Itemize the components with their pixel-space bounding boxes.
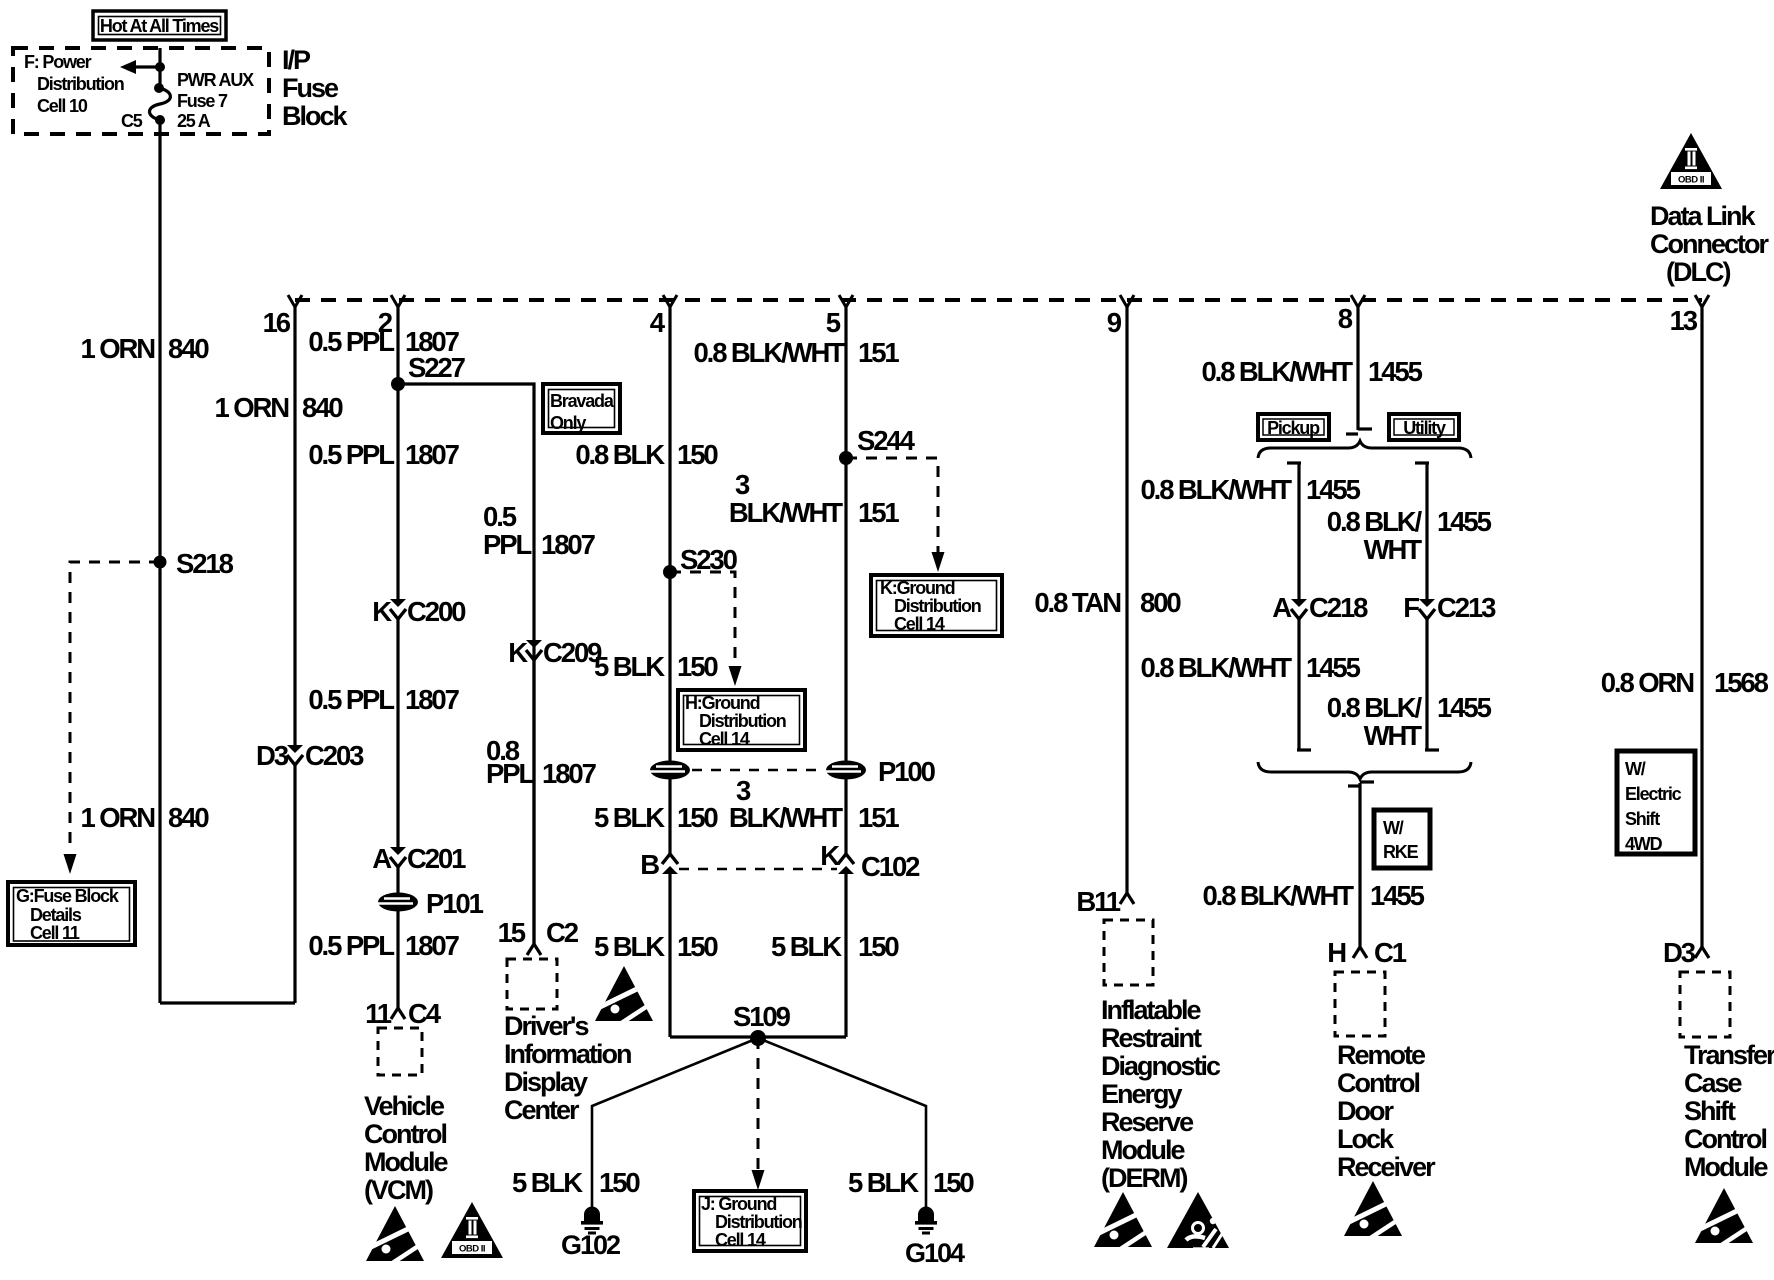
svg-text:Cell 14: Cell 14: [715, 1230, 766, 1250]
label 5 BLK 150: [594, 931, 718, 962]
svg-text:Shift: Shift: [1625, 809, 1660, 829]
svg-text:150: 150: [677, 439, 718, 470]
dashed branch S230 to H:Ground box: [670, 572, 735, 666]
svg-text:0.5 PPL: 0.5 PPL: [308, 684, 394, 715]
pickup sub-wire: [1297, 463, 1300, 601]
svg-text:5 BLK: 5 BLK: [594, 931, 665, 962]
ESD triangle (TCSCM): [1695, 1188, 1753, 1246]
wire 4 upper: [668, 306, 671, 855]
svg-text:Data Link: Data Link: [1650, 201, 1757, 231]
svg-text:1455: 1455: [1368, 356, 1423, 387]
label 3 BLK/WHT 151 upper: [729, 469, 899, 528]
Driver's Information Display Center label: [504, 1011, 631, 1125]
svg-text:Block: Block: [282, 101, 349, 131]
svg-text:RKE: RKE: [1383, 842, 1419, 862]
svg-text:(DERM): (DERM): [1101, 1163, 1187, 1193]
DERM label: [1101, 995, 1221, 1193]
svg-text:PPL: PPL: [486, 758, 534, 789]
svg-text:Cell 14: Cell 14: [894, 614, 945, 634]
Vehicle Control Module (VCM) label: [364, 1091, 448, 1205]
svg-text:S227: S227: [408, 352, 466, 383]
connector C209 pin K: [526, 640, 542, 660]
label 0.8 BLK/WHT 1455 (utility lower, stacked): [1327, 692, 1492, 751]
svg-text:Display: Display: [504, 1067, 588, 1097]
svg-text:A: A: [1272, 592, 1292, 623]
svg-text:S244: S244: [857, 425, 916, 456]
svg-text:1807: 1807: [541, 529, 596, 560]
svg-text:0.5 PPL: 0.5 PPL: [308, 930, 394, 961]
bus joint pin 4: [650, 295, 677, 338]
svg-text:Connector: Connector: [1650, 229, 1769, 259]
svg-text:Pickup: Pickup: [1267, 418, 1320, 438]
label 1 ORN 840: [214, 392, 343, 423]
dashed wire S109 to J:Ground box: [757, 1038, 760, 1174]
svg-text:S218: S218: [176, 548, 234, 579]
label 0.8 BLK/WHT 1455 (pickup lower): [1140, 652, 1360, 683]
wire bottom: across to column 16: [160, 1001, 295, 1004]
connector pin D3: [1695, 947, 1709, 958]
svg-text:K:Ground: K:Ground: [880, 578, 955, 598]
label 0.8 BLK/WHT 1455 (utility, stacked): [1327, 506, 1492, 565]
svg-text:5 BLK: 5 BLK: [771, 931, 842, 962]
bus joint pin 5: [826, 295, 853, 338]
svg-text:5 BLK: 5 BLK: [594, 802, 665, 833]
svg-text:0.8 BLK/WHT: 0.8 BLK/WHT: [1140, 652, 1292, 683]
arrow to F: Power Distribution: [128, 65, 160, 68]
svg-text:5 BLK: 5 BLK: [512, 1167, 583, 1198]
wire branch S227 to Bravada column: [398, 384, 534, 944]
connector C2 pin 15: [527, 944, 541, 955]
svg-text:BLK/WHT: BLK/WHT: [729, 802, 843, 833]
svg-text:150: 150: [677, 931, 718, 962]
wire 9: [1125, 306, 1128, 893]
wire 4 lower: [668, 873, 671, 1037]
svg-text:Module: Module: [364, 1147, 448, 1177]
bus joint pin 13: [1670, 295, 1709, 336]
svg-text:15: 15: [498, 917, 526, 948]
Pickup box: [1258, 414, 1329, 440]
svg-text:Distribution: Distribution: [699, 711, 786, 731]
svg-text:PPL: PPL: [483, 529, 531, 560]
J: Ground Distribution Cell 14 box: [694, 1191, 806, 1251]
svg-text:D3: D3: [1663, 937, 1696, 968]
svg-text:Control: Control: [1337, 1068, 1419, 1098]
svg-text:Details: Details: [30, 905, 82, 925]
svg-text:Distribution: Distribution: [715, 1212, 802, 1232]
svg-text:1 ORN: 1 ORN: [214, 392, 288, 423]
svg-text:WHT: WHT: [1364, 534, 1423, 565]
svg-text:F: F: [1403, 592, 1419, 623]
bus joint pin 9: [1107, 295, 1134, 338]
svg-text:BLK/WHT: BLK/WHT: [729, 497, 843, 528]
svg-text:Information: Information: [504, 1039, 631, 1069]
connector pin B11: [1120, 893, 1134, 904]
wire into fuse: [158, 48, 161, 88]
svg-text:Control: Control: [1684, 1124, 1766, 1154]
svg-text:Reserve: Reserve: [1101, 1107, 1194, 1137]
svg-text:151: 151: [858, 497, 899, 528]
bus joint pin 2: [378, 295, 405, 338]
label 0.8 BLK/WHT 151: [693, 337, 899, 368]
svg-text:P100: P100: [878, 756, 936, 787]
K: Ground Distribution Cell 14 box: [871, 575, 1002, 636]
svg-text:150: 150: [677, 651, 718, 682]
svg-text:I/P: I/P: [282, 45, 311, 75]
wire 13: [1700, 306, 1703, 947]
connector C4 pin 11: [391, 1008, 405, 1019]
svg-text:C1: C1: [1374, 937, 1407, 968]
svg-text:0.8 ORN: 0.8 ORN: [1601, 667, 1694, 698]
Hot At All Times label box: [93, 11, 226, 40]
grommet P100 right: [826, 761, 866, 780]
svg-text:840: 840: [302, 392, 343, 423]
svg-text:9: 9: [1107, 307, 1122, 338]
svg-text:1455: 1455: [1306, 652, 1361, 683]
wire S109 to G102: [592, 1038, 758, 1207]
svg-text:150: 150: [599, 1167, 640, 1198]
svg-text:5 BLK: 5 BLK: [594, 651, 665, 682]
F: Power Distribution Cell 10 text: [24, 52, 124, 116]
wire 2 middle: [396, 618, 399, 849]
top brace: [1258, 441, 1471, 458]
svg-text:K: K: [372, 596, 392, 627]
svg-text:800: 800: [1140, 587, 1181, 618]
svg-text:5 BLK: 5 BLK: [848, 1167, 919, 1198]
svg-text:840: 840: [168, 802, 209, 833]
connector C102 pin K: [838, 854, 854, 874]
svg-text:0.8 BLK: 0.8 BLK: [575, 439, 665, 470]
svg-text:Distribution: Distribution: [894, 596, 981, 616]
svg-text:0.5 PPL: 0.5 PPL: [308, 326, 394, 357]
label 0.5 PPL 1807 (stacked): [483, 501, 596, 560]
svg-text:K: K: [820, 840, 840, 871]
connector C213 pin F: [1419, 599, 1435, 619]
svg-text:(VCM): (VCM): [364, 1175, 433, 1205]
RCDLR label: [1337, 1040, 1436, 1182]
svg-text:Transfer: Transfer: [1684, 1040, 1774, 1070]
svg-text:H:Ground: H:Ground: [685, 693, 760, 713]
wire 8: [1356, 306, 1359, 430]
svg-text:151: 151: [858, 802, 899, 833]
OBD II triangle (DLC): [1660, 133, 1722, 189]
ground G104: [915, 1207, 937, 1235]
svg-text:11: 11: [365, 998, 392, 1029]
RCDLR dashed box: [1335, 972, 1385, 1036]
OBD II triangle (VCM): [441, 1202, 503, 1258]
svg-text:0.5: 0.5: [483, 501, 517, 532]
node S218: [154, 556, 167, 569]
DERM dashed box: [1104, 920, 1153, 985]
svg-text:G:Fuse Block: G:Fuse Block: [16, 886, 120, 906]
label 0.8 ORN 1568: [1601, 667, 1769, 698]
svg-text:5: 5: [826, 307, 841, 338]
Data Link Connector (DLC) label: [1650, 201, 1769, 287]
svg-text:1807: 1807: [405, 439, 460, 470]
svg-text:G102: G102: [561, 1230, 620, 1260]
wire to C1: [1358, 783, 1361, 947]
svg-text:C4: C4: [408, 998, 442, 1029]
svg-text:Door: Door: [1337, 1096, 1394, 1126]
svg-text:Shift: Shift: [1684, 1096, 1736, 1126]
svg-text:4WD: 4WD: [1625, 834, 1663, 854]
bottom brace: [1258, 762, 1471, 779]
svg-text:B: B: [640, 849, 659, 880]
svg-text:Electric: Electric: [1625, 784, 1682, 804]
connector C200 pin K: [390, 599, 406, 619]
svg-text:H: H: [1327, 937, 1345, 968]
label 0.5 PPL 1807 third: [308, 684, 459, 715]
connector C201 pin A: [390, 847, 406, 867]
G: Fuse Block Details Cell 11 box: [8, 882, 135, 945]
svg-text:C218: C218: [1309, 592, 1368, 623]
svg-text:Center: Center: [504, 1095, 580, 1125]
svg-text:16: 16: [263, 307, 291, 338]
label 5 BLK 150: [594, 802, 718, 833]
VCM dashed box: [378, 1028, 422, 1075]
utility sub-wire: [1425, 463, 1428, 601]
svg-text:Driver's: Driver's: [504, 1011, 588, 1041]
svg-text:Control: Control: [364, 1119, 446, 1149]
label 5 BLK 150: [594, 651, 718, 682]
svg-text:Cell 10: Cell 10: [37, 96, 88, 116]
label 1 ORN 840 lower: [80, 802, 209, 833]
dashed branch S244 to K:Ground box: [846, 458, 938, 556]
wire 2 upper: [396, 306, 399, 601]
PWR AUX Fuse 7 25A text: [177, 70, 254, 131]
svg-text:1 ORN: 1 ORN: [80, 333, 154, 364]
H: Ground Distribution Cell 14 box: [678, 690, 805, 750]
utility sub-wire lower: [1425, 618, 1428, 750]
ground G102: [581, 1207, 603, 1235]
svg-text:C200: C200: [407, 596, 466, 627]
wire below C209: [532, 659, 535, 944]
grommet P101: [378, 893, 418, 912]
svg-text:1568: 1568: [1714, 667, 1769, 698]
wire 2 lower: [396, 866, 399, 1008]
svg-text:(DLC): (DLC): [1666, 257, 1730, 287]
svg-text:A: A: [372, 843, 392, 874]
svg-text:1455: 1455: [1437, 692, 1492, 723]
Utility box: [1389, 414, 1459, 440]
wire 8 end ticks: [1358, 427, 1372, 430]
svg-text:Receiver: Receiver: [1337, 1152, 1436, 1182]
svg-text:W/: W/: [1625, 759, 1646, 779]
svg-text:0.8 BLK/WHT: 0.8 BLK/WHT: [1202, 880, 1354, 911]
svg-text:0.8 BLK/: 0.8 BLK/: [1327, 506, 1423, 537]
svg-text:1807: 1807: [542, 758, 597, 789]
W/ RKE box: [1374, 810, 1430, 868]
svg-text:Lock: Lock: [1337, 1124, 1395, 1154]
svg-text:Utility: Utility: [1403, 418, 1446, 438]
svg-text:3: 3: [735, 469, 750, 500]
label 0.8 TAN 800: [1034, 587, 1181, 618]
Bravada Only box: [543, 384, 620, 433]
svg-text:Only: Only: [550, 413, 586, 433]
svg-text:Module: Module: [1684, 1152, 1768, 1182]
label 1 ORN 840 upper: [80, 333, 209, 364]
svg-text:Bravada: Bravada: [550, 391, 615, 411]
svg-text:Restraint: Restraint: [1101, 1023, 1202, 1053]
svg-text:C102: C102: [861, 851, 920, 882]
svg-text:Remote: Remote: [1337, 1040, 1426, 1070]
dashed line between P100 grommets: [692, 769, 824, 772]
wire 16 lower: [293, 764, 296, 1003]
label 0.8 PPL 1807 (stacked): [486, 735, 597, 789]
svg-text:840: 840: [168, 333, 209, 364]
svg-text:J: Ground: J: Ground: [701, 1194, 776, 1214]
svg-text:Fuse: Fuse: [282, 73, 339, 103]
svg-text:S230: S230: [680, 544, 738, 575]
svg-text:Cell 11: Cell 11: [30, 923, 80, 943]
wire S109 to G104: [758, 1038, 926, 1207]
svg-text:13: 13: [1670, 305, 1698, 336]
ESD triangle (DIDC): [595, 966, 653, 1024]
svg-text:D3: D3: [256, 740, 289, 771]
svg-text:C203: C203: [305, 740, 364, 771]
svg-text:Vehicle: Vehicle: [364, 1091, 445, 1121]
label 0.5 PPL 1807: [308, 326, 459, 357]
svg-text:Hot At All Times: Hot At All Times: [100, 16, 219, 36]
fuse element C5: [149, 88, 170, 120]
svg-text:1 ORN: 1 ORN: [80, 802, 154, 833]
bus joint pin 8: [1338, 295, 1365, 334]
label 5 BLK 150: [771, 931, 899, 962]
svg-text:Distribution: Distribution: [37, 74, 124, 94]
svg-text:1807: 1807: [405, 930, 460, 961]
svg-text:C2: C2: [546, 917, 579, 948]
svg-text:151: 151: [858, 337, 899, 368]
svg-text:WHT: WHT: [1364, 720, 1423, 751]
pickup sub-wire lower: [1297, 618, 1300, 750]
I/P Fuse Block label: [282, 45, 349, 131]
bus dashed wire: [295, 298, 1702, 302]
svg-text:150: 150: [677, 802, 718, 833]
svg-text:K: K: [508, 637, 528, 668]
ESD triangle (RCDLR): [1344, 1181, 1402, 1239]
svg-text:0.8 BLK/WHT: 0.8 BLK/WHT: [1140, 474, 1292, 505]
svg-text:S109: S109: [733, 1001, 791, 1032]
svg-text:1807: 1807: [405, 684, 460, 715]
svg-text:Inflatable: Inflatable: [1101, 995, 1202, 1025]
svg-text:8: 8: [1338, 303, 1353, 334]
svg-text:0.8 BLK/WHT: 0.8 BLK/WHT: [1201, 356, 1353, 387]
svg-text:0.5 PPL: 0.5 PPL: [308, 439, 394, 470]
label 0.5 PPL 1807 second: [308, 439, 459, 470]
svg-text:1455: 1455: [1306, 474, 1361, 505]
dashed connector line B to K: [679, 868, 837, 871]
svg-text:150: 150: [933, 1167, 974, 1198]
svg-text:0.8 TAN: 0.8 TAN: [1034, 587, 1120, 618]
svg-text:25 A: 25 A: [177, 111, 211, 131]
label 5 BLK 150 (G102): [512, 1167, 640, 1198]
svg-text:C201: C201: [407, 843, 466, 874]
svg-text:P101: P101: [426, 888, 484, 919]
SIR triangle (DERM): [1167, 1192, 1229, 1249]
bus joint pin 16: [263, 295, 302, 338]
dashed wire S218 to G:Fuse Block Details box: [70, 562, 160, 852]
svg-text:1455: 1455: [1437, 506, 1492, 537]
DIDC dashed box: [507, 959, 557, 1009]
svg-text:C213: C213: [1437, 592, 1496, 623]
svg-text:C5: C5: [121, 111, 143, 131]
svg-text:Module: Module: [1101, 1135, 1185, 1165]
grommet P100 left: [650, 761, 690, 780]
label 5 BLK 150 (G104): [848, 1167, 974, 1198]
svg-text:Cell 14: Cell 14: [699, 729, 750, 749]
label 0.8 BLK/WHT 1455 (C1): [1202, 880, 1424, 911]
svg-text:W/: W/: [1383, 818, 1404, 838]
TCSCM dashed box: [1680, 972, 1730, 1037]
label 0.8 BLK 150: [575, 439, 718, 470]
label 0.8 BLK/WHT 1455 (pickup): [1140, 474, 1360, 505]
wire 5 lower: [844, 873, 847, 1037]
svg-text:1455: 1455: [1370, 880, 1425, 911]
svg-text:PWR AUX: PWR AUX: [177, 70, 254, 90]
svg-text:Diagnostic: Diagnostic: [1101, 1051, 1221, 1081]
ESD triangle (VCM): [366, 1206, 424, 1264]
wire 16 upper: [293, 306, 296, 746]
label 0.5 PPL 1807 fourth: [308, 930, 459, 961]
I/P fuse block dashed box: [13, 48, 269, 134]
svg-text:Case: Case: [1684, 1068, 1743, 1098]
connector C218 pin A: [1291, 599, 1307, 619]
svg-text:0.8 BLK/WHT: 0.8 BLK/WHT: [693, 337, 845, 368]
wire: fuse down left side: [158, 120, 161, 1003]
svg-text:Energy: Energy: [1101, 1079, 1183, 1109]
label 0.8 BLK/WHT 1455: [1201, 356, 1422, 387]
svg-text:G104: G104: [905, 1238, 965, 1268]
svg-text:B11: B11: [1076, 886, 1120, 917]
svg-text:Fuse 7: Fuse 7: [177, 91, 228, 111]
connector C203 pin D3: [287, 745, 303, 765]
wire joining 4 and 5: [670, 1035, 846, 1038]
W/ Electric Shift 4WD box: [1617, 751, 1695, 854]
connector C1 pin H: [1353, 947, 1367, 958]
label 3 BLK/WHT 151 lower: [729, 775, 899, 833]
ESD triangle (DERM): [1094, 1192, 1152, 1250]
svg-text:150: 150: [858, 931, 899, 962]
connector C102 pin B: [662, 854, 678, 874]
svg-text:F: Power: F: Power: [24, 52, 92, 72]
svg-text:0.8 BLK/: 0.8 BLK/: [1327, 692, 1423, 723]
TCSCM label: [1684, 1040, 1774, 1182]
wire 5 upper: [844, 306, 847, 855]
